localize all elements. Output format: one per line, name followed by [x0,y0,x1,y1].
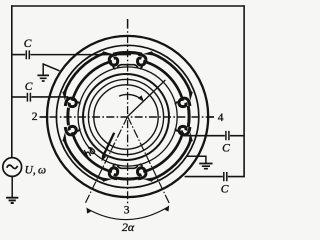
wire C4 left from shell [185,176,223,178]
rotor inner circle [94,85,158,149]
tail wire C3 to SE slot [181,130,184,135]
capacitor C1 [26,50,29,59]
stator outer circle [47,36,208,197]
AC source U [3,158,22,177]
stator second circle [56,45,198,187]
svg-text:3: 3 [124,205,130,217]
centerline horizontal [50,116,208,118]
ground right [199,164,212,169]
ground at source [6,198,18,203]
label h-delta [84,146,96,158]
pole shoe SW [64,132,112,180]
lead node 4 [208,116,214,118]
wire source to ground [11,176,13,197]
AC source tilde [7,165,18,168]
wire right bus [243,5,245,177]
wire left bus [11,5,13,157]
wire C1 right to node 1 bar [30,54,131,56]
wire top bus [11,5,244,7]
rotor outer circle [83,74,169,160]
rotor middle circle [88,79,163,154]
wire left ground leader [43,64,59,75]
wire C1 left [11,54,25,56]
rotation arrow [119,94,143,100]
svg-text:C: C [25,81,33,93]
svg-text:C: C [222,143,230,155]
ground left [37,75,49,81]
slot pair node 1 (top) [101,51,155,69]
wire C3 left from electrode [184,135,225,137]
svg-text:2α: 2α [122,220,135,233]
svg-text:C: C [221,183,229,195]
radius line to pole gap [128,80,166,117]
dimension arrow h-delta [103,133,114,157]
pole shoe SE [143,132,191,180]
wire C4 right [228,176,245,178]
capacitor C2 [27,93,30,102]
pole shoe NE [143,53,191,101]
svg-text:C: C [24,38,32,50]
stator bore circle [78,67,177,166]
wire C3 right [230,135,245,137]
svg-text:2: 2 [32,111,38,123]
slot pair node 2 (left) [62,89,80,143]
svg-text:4: 4 [218,112,224,124]
capacitor C3 [226,131,229,140]
wire C2 left [11,96,26,98]
svg-text:U, ω: U, ω [25,164,46,176]
pole shoe NW [64,53,112,101]
capacitor C4 [224,172,227,181]
angle line left [85,117,128,205]
slot pair node 4 (right) [175,89,193,143]
label 1 tick [127,19,129,29]
centerline vertical [127,31,129,204]
slot pair node 3 (bottom) [101,164,155,182]
tail wire C2 to left slot [67,97,69,103]
angle arc 2a [87,207,169,220]
wire right ground leader [187,156,206,163]
angle line right [128,117,170,205]
wire C2 right to electrode 2 hook [31,96,68,98]
lead node 2 [40,116,49,118]
